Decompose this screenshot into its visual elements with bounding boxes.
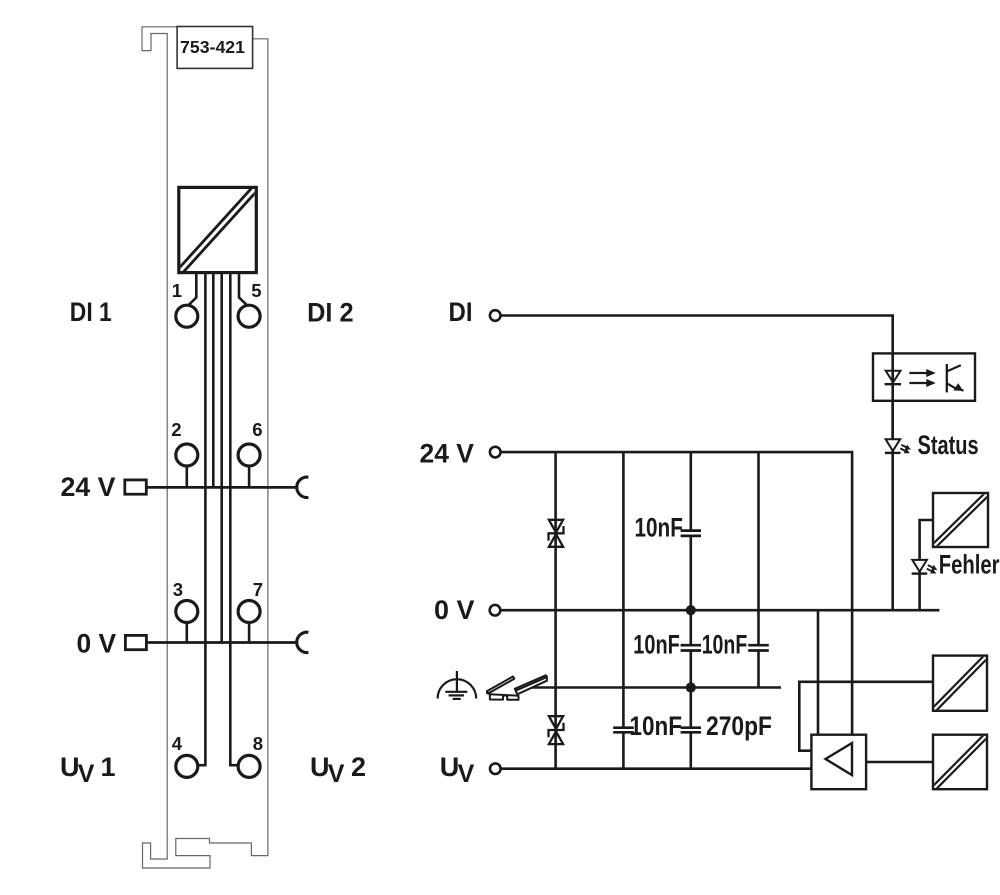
0V rail <box>501 609 940 612</box>
svg-text:6: 6 <box>252 419 262 440</box>
label Uv (schematic) <box>440 752 475 788</box>
wire Fehler box to LED to 0V rail <box>920 520 933 610</box>
Fehler LED light arrows <box>927 565 937 573</box>
optocoupler phototransistor <box>947 364 964 392</box>
24V bus line across module <box>146 486 296 489</box>
branch 4 24V to ground rail with cap <box>757 452 760 687</box>
capacitor 10nF (0V-gnd left) <box>681 645 701 650</box>
24V input terminal circle <box>490 447 501 458</box>
Uv terminal circle <box>490 763 501 774</box>
ground rail <box>520 686 781 689</box>
status LED symbol <box>885 439 901 453</box>
wire elbow to terminal 4 <box>198 764 205 767</box>
svg-text:DI: DI <box>449 297 473 327</box>
capacitor 10nF (gnd-Uv) <box>613 728 634 733</box>
upper isolation box (system bus) <box>933 656 987 711</box>
svg-text:2: 2 <box>351 752 366 782</box>
wire to terminal 4 <box>204 273 207 767</box>
svg-text:3: 3 <box>173 579 183 600</box>
wire to 24V bus <box>212 273 215 488</box>
svg-text:V: V <box>78 760 95 788</box>
status LED light arrows <box>900 445 910 453</box>
0V power jumper contact (male) <box>125 635 146 649</box>
optocoupler LED wire through box <box>891 353 894 439</box>
terminal 6 <box>238 444 260 466</box>
module outline 753-421 housing profile <box>142 27 268 868</box>
optocoupler light arrows <box>909 370 934 386</box>
capacitor 10nF (24V-0V) <box>681 531 701 536</box>
wire top isolation box to DC/DC converter <box>799 682 933 751</box>
terminal 3 stub to 0V bus <box>186 622 189 643</box>
branch 1 (TVS) 24V to Uv <box>554 452 557 769</box>
junction dot 0V / branch3 <box>686 605 696 615</box>
wire DC/DC to lower isolation box <box>866 761 933 764</box>
terminal 1 <box>176 305 198 327</box>
svg-text:DI 1: DI 1 <box>70 297 112 327</box>
24V power jumper contact (female clamp) <box>297 477 309 497</box>
terminal 2 <box>176 444 198 466</box>
junction dot gnd / branch3 <box>686 682 696 692</box>
wire to terminal 8 <box>229 273 232 767</box>
label box 753-421 <box>177 27 253 69</box>
Fehler LED symbol <box>912 560 928 574</box>
svg-text:24 V: 24 V <box>420 438 474 468</box>
terminal 2 stub to 24V bus <box>186 465 189 487</box>
TVS suppressor diode (24V branch) <box>549 520 564 547</box>
svg-text:5: 5 <box>251 280 261 301</box>
wire optocoupler to status LED and on to 0V rail <box>891 401 894 610</box>
wire elbow to terminal 8 <box>230 764 237 767</box>
DI input terminal circle <box>490 310 501 321</box>
DC/DC converter box with triangle <box>811 735 866 790</box>
svg-text:V: V <box>458 760 475 788</box>
24V power jumper contact (male) <box>125 480 147 494</box>
svg-text:DI 2: DI 2 <box>307 298 354 328</box>
DI wire to optocoupler <box>501 316 893 354</box>
terminal 8 <box>238 755 260 777</box>
wire to terminal 5 <box>239 273 247 305</box>
terminal 5 <box>238 305 260 327</box>
svg-text:1: 1 <box>101 752 116 782</box>
TVS suppressor diode (Uv branch) <box>549 716 564 744</box>
svg-text:10nF: 10nF <box>633 630 680 660</box>
svg-text:1: 1 <box>172 280 182 301</box>
lower isolation box (system bus) <box>933 735 987 790</box>
wire to 0V bus <box>220 273 223 643</box>
capacitor 270pF (gnd-Uv) <box>681 728 701 733</box>
label Uv 1 <box>60 752 116 788</box>
svg-text:10nF: 10nF <box>635 513 683 543</box>
svg-text:10nF: 10nF <box>630 711 683 741</box>
optocoupler box <box>873 353 975 400</box>
svg-text:U: U <box>60 752 80 782</box>
svg-text:24 V: 24 V <box>61 472 116 502</box>
terminal 4 <box>176 755 198 777</box>
0V bus line across module <box>146 641 296 644</box>
capacitor 10nF (0V-gnd right) <box>748 645 769 650</box>
Uv rail to DC/DC converter <box>501 767 812 770</box>
0V power jumper contact (female clamp) <box>297 632 309 652</box>
svg-text:7: 7 <box>253 579 263 600</box>
isolation square on module <box>179 187 256 272</box>
svg-text:4: 4 <box>172 733 183 754</box>
terminal 7 stub to 0V bus <box>248 622 251 643</box>
svg-text:0 V: 0 V <box>77 629 117 659</box>
svg-text:8: 8 <box>253 733 263 754</box>
chassis ground symbol <box>438 671 477 699</box>
DIN rail icon <box>487 675 547 700</box>
branch 3 with three caps <box>689 452 692 769</box>
0V input terminal circle <box>490 605 501 616</box>
svg-text:270pF: 270pF <box>706 711 772 741</box>
terminal 6 stub to 24V bus <box>248 465 251 487</box>
label Uv 2 <box>310 752 366 788</box>
svg-text:753-421: 753-421 <box>180 37 245 57</box>
branch 2 24V to Uv with cap <box>622 452 625 769</box>
optocoupler LED symbol <box>885 371 902 384</box>
terminal 3 <box>176 601 198 623</box>
svg-text:U: U <box>310 752 330 782</box>
svg-text:U: U <box>440 752 460 782</box>
wire 0V drop to DC/DC converter <box>817 610 820 735</box>
24V rail and drop to DC/DC converter <box>501 452 852 735</box>
svg-text:Fehler: Fehler <box>939 549 1000 579</box>
svg-text:0 V: 0 V <box>434 595 474 625</box>
svg-text:2: 2 <box>171 419 181 440</box>
svg-text:Status: Status <box>918 430 979 460</box>
Fehler isolation box <box>933 493 988 547</box>
wire to terminal 1 <box>189 273 197 305</box>
terminal 7 <box>238 601 260 623</box>
svg-text:10nF: 10nF <box>702 630 748 660</box>
svg-text:V: V <box>328 760 345 788</box>
